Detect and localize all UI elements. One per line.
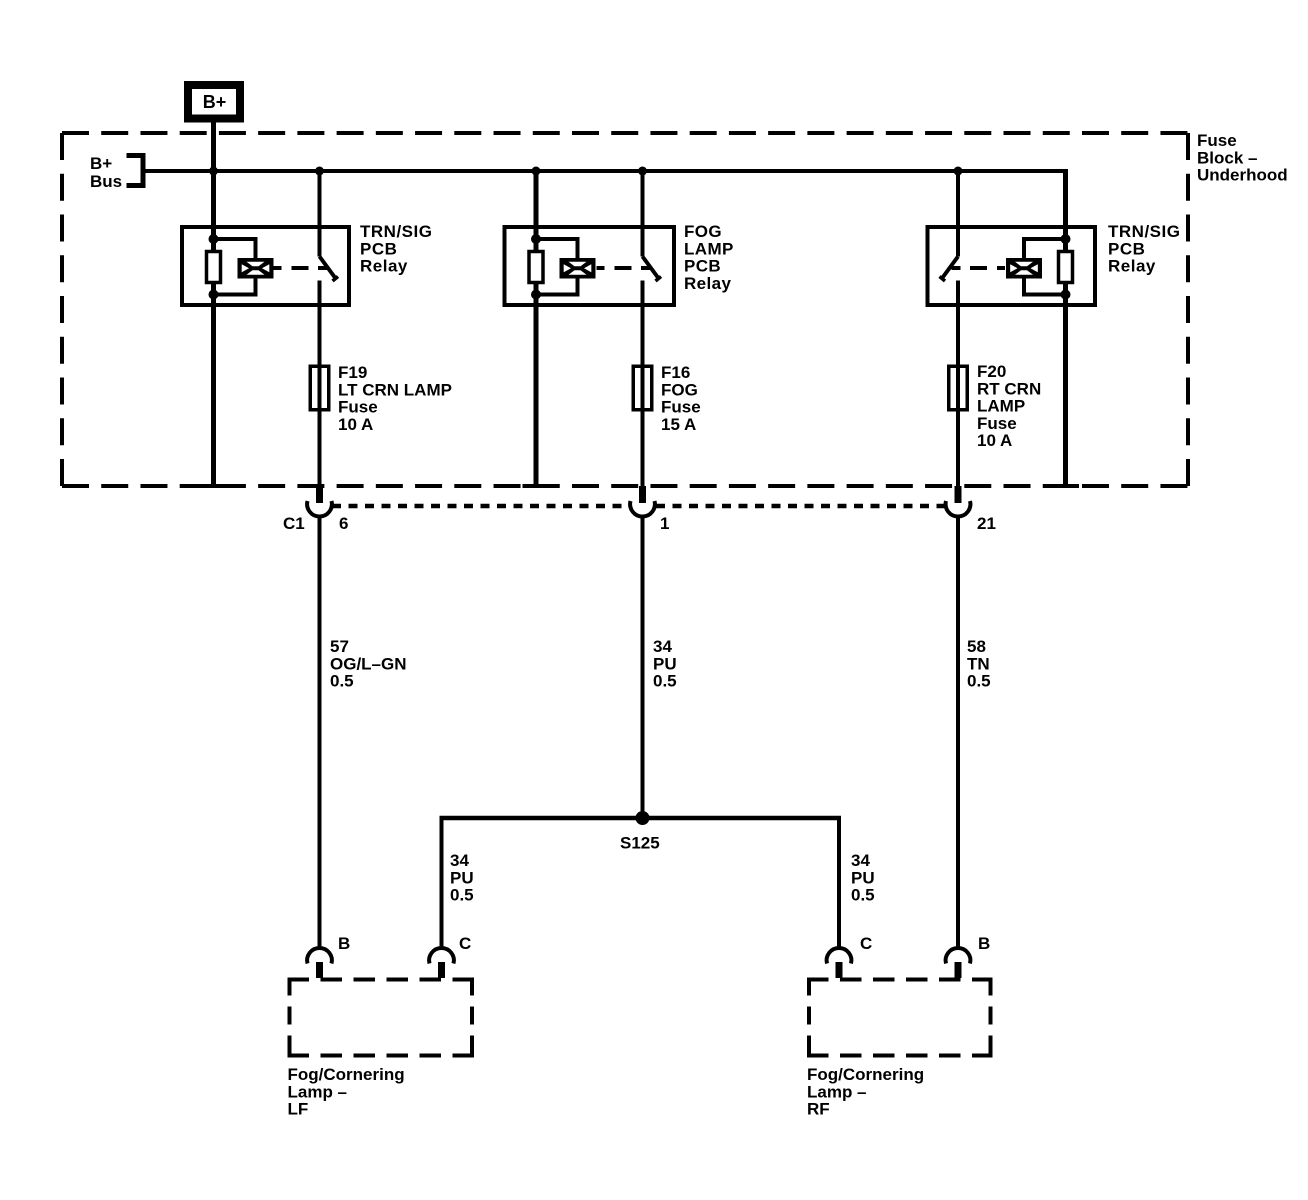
wire: branch from coil bottom	[214, 279, 256, 295]
wire: S125 splice bar (34 PU 0.5)	[440, 816, 842, 821]
wire 58 TN 0.5 (C1-21 to RF lamp B)	[956, 516, 960, 950]
wire: B+ feed to left relay coil	[211, 121, 216, 486]
wire: branch to coil top	[1024, 239, 1066, 258]
power symbol B+	[184, 81, 244, 123]
wire: bus to left relay switch	[318, 171, 322, 257]
resistor (relay coil suppression)	[207, 252, 221, 283]
junction: bus / left switch wire	[315, 167, 324, 176]
junction: bus / middle coil feed	[532, 167, 541, 176]
svg-text:B: B	[978, 934, 990, 953]
wire: S125 to RF lamp pin C (34 PU 0.5)	[837, 816, 841, 950]
connector C1 pin 21	[946, 486, 971, 517]
connector C1 pin 1	[630, 486, 655, 517]
coil L1 (box with X)	[238, 258, 274, 279]
switch arm	[643, 257, 660, 280]
connector: RF lamp pin B	[946, 948, 971, 978]
svg-text:C: C	[459, 934, 471, 953]
svg-text:B+: B+	[203, 92, 227, 112]
wire: left relay switch to fuse F19 and C1-6	[318, 281, 322, 487]
junction: coil top node	[531, 234, 541, 244]
wire: bus to middle relay coil	[534, 171, 539, 486]
connector C1 pin 6	[307, 486, 332, 517]
relay U2: FOG LAMP PCB Relay (middle)	[505, 227, 675, 305]
fuse F16	[633, 366, 652, 410]
wire 34 PU 0.5 (C1-1 to S125)	[641, 516, 645, 819]
junction: coil bottom node	[1061, 290, 1071, 300]
svg-text:C1: C1	[283, 514, 305, 533]
linkage (dashed actuator)	[597, 266, 605, 270]
wire 57 OG/L-GN 0.5 (C1-6 to LF lamp B)	[318, 516, 322, 950]
fuse F19	[310, 366, 329, 410]
wire: branch to coil top	[214, 239, 256, 258]
svg-text:S125: S125	[620, 834, 660, 853]
svg-text:B: B	[338, 934, 350, 953]
junction: coil top node	[209, 234, 219, 244]
wire: middle relay switch to fuse F16 and C1-1	[641, 281, 645, 487]
wire: bus to right relay switch	[956, 171, 960, 257]
junction: coil bottom node	[209, 290, 219, 300]
wire: branch from coil bottom	[1024, 279, 1066, 295]
wire: branch from coil bottom	[536, 279, 578, 295]
svg-text:6: 6	[339, 514, 348, 533]
wire: B+ bus (horizontal)	[146, 169, 1068, 173]
connector line C1 (dotted)	[332, 504, 630, 509]
coil L2 (box with X)	[560, 258, 596, 279]
junction: coil top node	[1061, 234, 1071, 244]
junction: bus / B+ feed	[209, 167, 218, 176]
switch arm	[320, 257, 337, 280]
relay U1: TRN/SIG PCB Relay (left)	[182, 227, 349, 305]
resistor (relay coil suppression)	[529, 252, 543, 283]
junction: bus / middle switch wire	[638, 167, 647, 176]
splice S125	[636, 811, 650, 825]
fuse block boundary (dashed box, Fuse Block - Underhood)	[62, 133, 1188, 486]
connector: LF lamp pin B	[307, 948, 332, 978]
linkage (dashed actuator)	[997, 266, 1005, 270]
relay U3: TRN/SIG PCB Relay (right, mirrored)	[928, 227, 1096, 305]
linkage (dashed actuator)	[274, 266, 282, 270]
node: B+ Bus bracket	[127, 156, 144, 186]
wire: branch to coil top	[536, 239, 578, 258]
coil L3 (box with X)	[1006, 258, 1042, 279]
wire: right relay switch to fuse F20 and C1-21	[956, 281, 960, 487]
lamp: Fog/Cornering Lamp - LF (dashed box)	[288, 978, 475, 1058]
connector: RF lamp pin C	[827, 948, 852, 978]
svg-text:1: 1	[660, 514, 669, 533]
wire: bus to middle relay switch	[641, 171, 645, 257]
svg-text:C: C	[860, 934, 872, 953]
wire: bus drop to right relay coil	[1063, 169, 1068, 486]
fuse F20	[949, 366, 968, 410]
connector: LF lamp pin C	[429, 948, 454, 978]
switch arm	[942, 257, 959, 280]
svg-text:21: 21	[977, 514, 996, 533]
wire: S125 to LF lamp pin C (34 PU 0.5)	[440, 816, 444, 950]
junction: bus / right switch wire	[954, 167, 963, 176]
resistor (relay coil suppression)	[1059, 252, 1073, 283]
lamp: Fog/Cornering Lamp - RF (dashed box)	[807, 978, 993, 1058]
junction: coil bottom node	[531, 290, 541, 300]
